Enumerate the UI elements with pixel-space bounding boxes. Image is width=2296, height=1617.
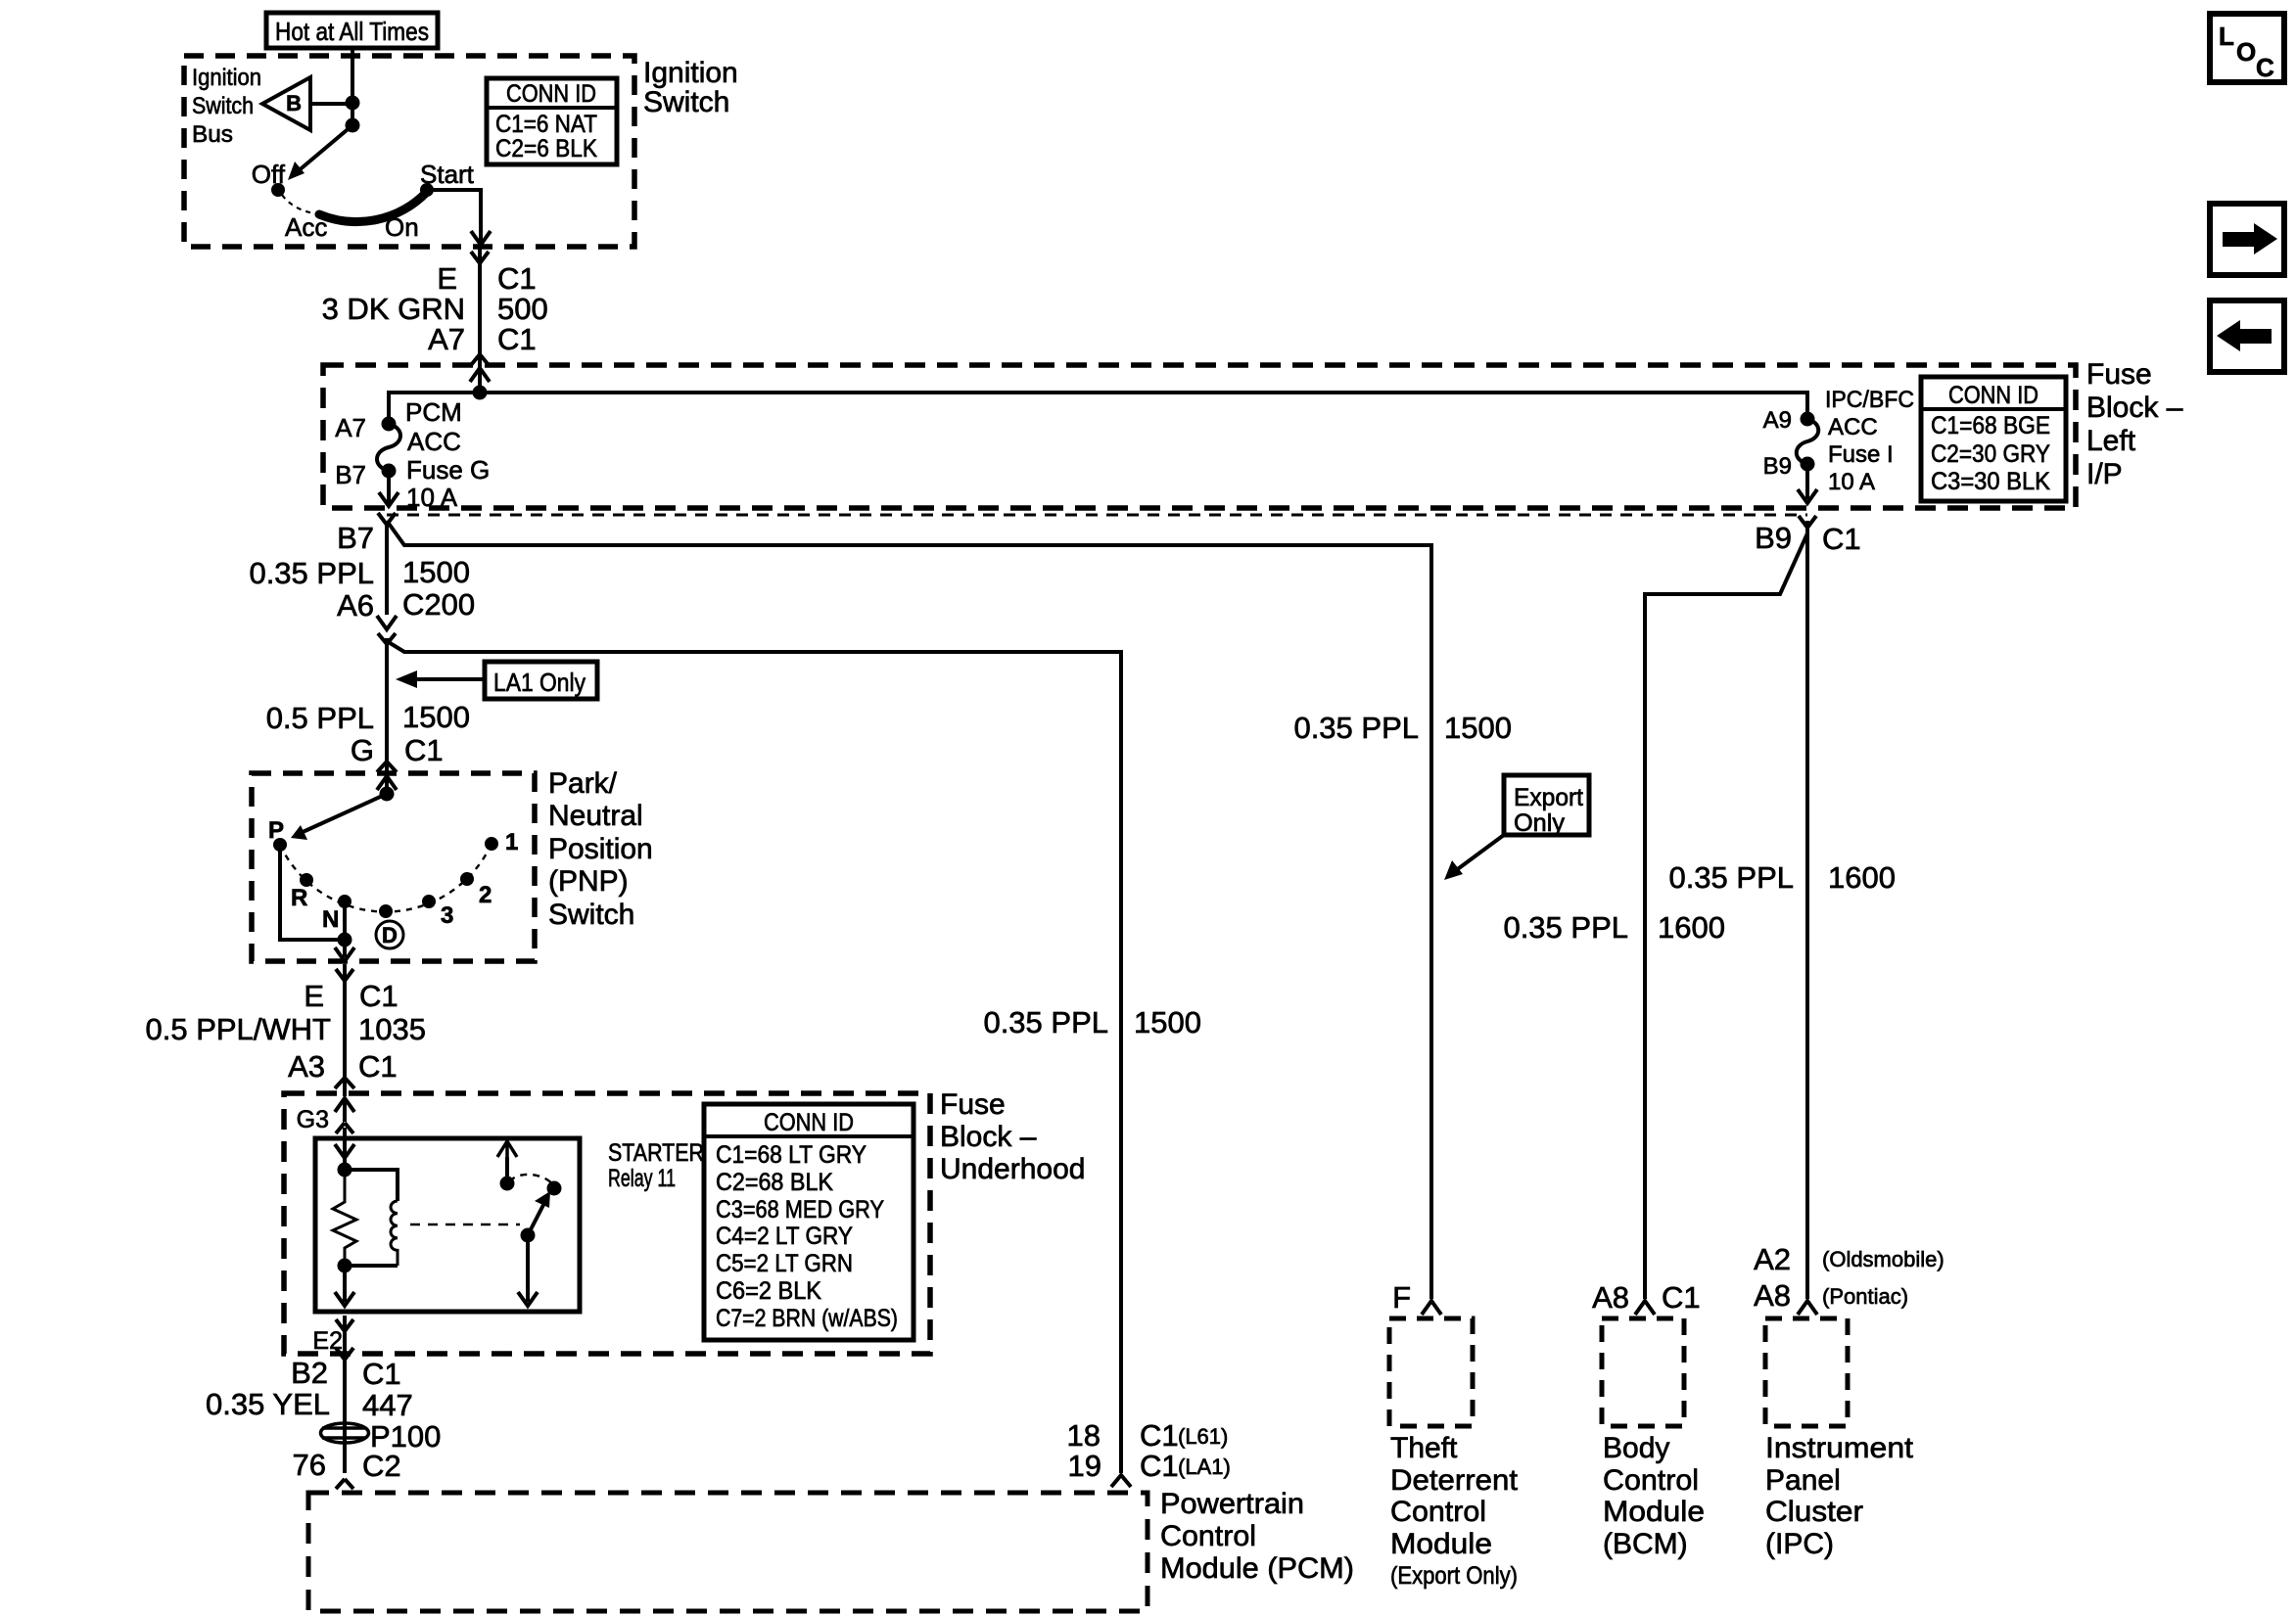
svg-text:D: D [382,923,398,947]
svg-text:C1=6 NAT: C1=6 NAT [495,111,597,138]
label Fuse Block - Underhood [940,1088,1085,1185]
PCM dashed box [308,1493,1148,1611]
connector A6 / C200 [337,587,475,644]
wire label 0.35 PPL 1500 (theft line) [1293,711,1512,745]
svg-text:Panel: Panel [1765,1464,1841,1497]
svg-text:1500: 1500 [1444,711,1512,745]
svg-text:Control: Control [1603,1464,1699,1497]
svg-text:0.35 PPL: 0.35 PPL [249,556,374,590]
svg-text:Block –: Block – [2086,392,2183,424]
wire label 0.35 PPL 1500 [249,555,470,590]
svg-text:B7: B7 [335,460,366,489]
relay top branch wire [345,1170,398,1201]
connector A2/A8 (IPC) [1754,1242,1945,1315]
label PCM ACC [405,397,462,456]
svg-text:(BCM): (BCM) [1603,1528,1688,1560]
svg-text:A8: A8 [1592,1280,1629,1315]
svg-text:C: C [2256,53,2274,82]
svg-text:CONN ID: CONN ID [764,1109,854,1136]
junction node relay top [340,1165,351,1176]
connector F (theft deterrent) [1392,1280,1441,1315]
terminal G3 arrow into underhood block [297,1098,354,1133]
svg-text:B9: B9 [1763,453,1792,480]
relay moving contact node [549,1183,560,1194]
node 1 [487,829,518,855]
arrow wire entering fuse block [470,368,490,393]
svg-text:C1: C1 [404,733,444,767]
arrow wire entering PNP switch [377,776,397,794]
svg-text:Left: Left [2086,425,2136,457]
PNP switch dashed box [252,773,535,961]
connector A8 / C1 (BCM) [1592,1280,1701,1315]
svg-text:A6: A6 [337,588,374,623]
svg-text:Hot at All Times: Hot at All Times [275,17,429,46]
grommet P100 [321,1419,442,1454]
left arrow icon box [2210,300,2284,372]
label Instrument Panel Cluster (IPC) [1765,1432,1914,1560]
svg-text:C1: C1 [1822,522,1861,556]
wire N to output junction [343,901,347,940]
svg-text:Start: Start [420,160,475,189]
wire G3 to starter relay [343,1128,347,1170]
svg-text:C3=68 MED GRY: C3=68 MED GRY [716,1196,884,1224]
svg-text:N: N [322,906,339,933]
svg-text:0.5 PPL/WHT: 0.5 PPL/WHT [146,1012,332,1046]
svg-text:1600: 1600 [1828,860,1896,895]
dashed contact travel arc [509,1175,554,1185]
svg-text:Switch: Switch [548,899,634,931]
wire from Hot at All Times into ignition switch [351,48,354,125]
wire B7 down to C200 [385,525,389,615]
svg-text:Underhood: Underhood [940,1153,1085,1185]
wire label 0.35 PPL 1600 (IPC line) [1668,860,1896,895]
connector G / C1 (PNP switch) [351,733,444,772]
svg-text:Park/: Park/ [548,767,618,800]
svg-text:L: L [2219,22,2234,51]
connector A3 / C1 (underhood fuse block) [288,1049,398,1088]
node P [268,817,285,850]
label Ignition Switch Bus [192,65,261,148]
terminal label A7 / C1 (fuse block) [428,322,537,365]
svg-text:STARTER: STARTER [608,1139,704,1167]
node 3 [424,897,453,929]
terminal B7 of fuse G [335,460,394,489]
svg-text:Bus: Bus [192,121,233,148]
svg-text:A7: A7 [428,322,465,356]
svg-text:Only: Only [1514,809,1566,837]
Fuse Block Underhood dashed box [284,1093,930,1354]
svg-text:10 A: 10 A [1828,469,1875,495]
svg-text:Fuse I: Fuse I [1828,441,1894,468]
relay fixed contact wire with up arrow [497,1141,517,1189]
svg-text:19: 19 [1068,1449,1101,1483]
svg-text:On: On [385,212,419,242]
connector ID box (ignition switch) [487,78,617,164]
Theft Deterrent Control Module dashed box [1389,1318,1473,1426]
svg-text:CONN ID: CONN ID [1948,382,2038,409]
svg-text:C1: C1 [497,261,537,296]
svg-text:IPC/BFC: IPC/BFC [1825,387,1914,413]
wire label 0.35 YEL 447 [206,1387,413,1422]
wire label 0.35 PPL 1500 (PCM line) [983,1005,1201,1039]
svg-text:(L61): (L61) [1178,1424,1228,1449]
Export Only flag box [1444,775,1589,880]
connector B9 / C1 below fuse block [1755,516,1861,556]
svg-text:1500: 1500 [402,555,470,589]
svg-text:(Pontiac): (Pontiac) [1822,1284,1908,1309]
label Powertrain Control Module (PCM) [1160,1488,1354,1585]
svg-text:Position: Position [548,833,653,865]
wire C200 to PNP switch [385,638,389,773]
svg-text:B2: B2 [291,1356,328,1390]
svg-text:F: F [1392,1280,1411,1315]
wire ignition switch to fuse block [478,247,482,392]
svg-text:0.5 PPL: 0.5 PPL [266,701,374,735]
wire relay to underhood block exit [343,1316,347,1473]
svg-text:Off: Off [252,160,286,189]
label Ignition Switch [643,57,738,118]
buffer triangle B (ignition switch bus) [262,77,352,130]
fuse block internal bus wire [389,393,1807,424]
svg-text:Fuse: Fuse [2086,358,2152,391]
svg-text:C1: C1 [358,1049,398,1084]
label STARTER Relay 11 [608,1139,704,1192]
svg-text:Fuse G: Fuse G [406,455,490,485]
label Fuse G 10 A [406,455,490,512]
svg-text:C200: C200 [402,587,475,622]
svg-text:Ignition: Ignition [192,65,261,91]
Fuse Block Left I/P dashed box [323,365,2076,508]
svg-text:A7: A7 [335,413,366,442]
svg-text:Deterrent: Deterrent [1390,1464,1519,1497]
wire label 0.5 PPL 1500 [266,700,470,735]
svg-text:0.35 PPL: 0.35 PPL [1668,860,1794,895]
svg-text:E: E [437,261,457,296]
svg-text:C6=2 BLK: C6=2 BLK [716,1277,821,1305]
svg-text:Relay 11: Relay 11 [608,1165,676,1192]
svg-text:C1: C1 [359,979,398,1013]
Body Control Module dashed box [1602,1318,1684,1426]
connector 18/19 C1 (PCM) [1067,1418,1231,1487]
svg-text:C2: C2 [362,1449,401,1483]
right arrow icon box [2210,204,2284,275]
relay switch arm with arrow [523,1191,551,1241]
coil (relay) [391,1201,398,1266]
arrow into relay coil branch [335,1144,354,1158]
svg-text:P: P [268,817,284,844]
wire A6 branch to PCM line [387,641,1121,1473]
svg-text:C1: C1 [1662,1280,1701,1315]
svg-text:PCM: PCM [405,397,462,427]
terminal A9 of fuse I [1763,407,1813,434]
svg-text:76: 76 [293,1448,326,1482]
svg-text:ACC: ACC [1828,414,1878,440]
svg-text:C1: C1 [362,1357,401,1391]
svg-text:C1: C1 [1140,1418,1179,1453]
node switch pivot [348,120,358,131]
svg-text:Powertrain: Powertrain [1160,1488,1304,1520]
terminal A7 of fuse G [335,413,394,442]
connector B2 / C1 [291,1356,401,1391]
svg-text:O: O [2236,37,2256,67]
svg-text:B9: B9 [1755,521,1792,555]
node Off [252,160,286,195]
svg-text:Theft: Theft [1390,1432,1458,1464]
svg-text:500: 500 [497,292,548,326]
svg-text:Instrument: Instrument [1765,1432,1914,1464]
Hot at All Times box [266,13,438,48]
svg-text:Control: Control [1160,1520,1256,1552]
svg-text:Cluster: Cluster [1765,1496,1863,1528]
svg-text:(Export Only): (Export Only) [1390,1562,1518,1590]
starter relay box [315,1138,580,1312]
svg-text:0.35 PPL: 0.35 PPL [983,1005,1108,1039]
svg-text:447: 447 [362,1388,413,1422]
svg-text:Module: Module [1603,1496,1705,1528]
svg-text:R: R [291,885,307,911]
junction node relay bottom [340,1261,351,1271]
svg-text:CONN ID: CONN ID [506,80,596,108]
svg-text:Fuse: Fuse [940,1088,1006,1121]
svg-text:LA1 Only: LA1 Only [493,668,586,697]
label Body Control Module (BCM) [1603,1432,1705,1560]
node N [322,897,350,933]
svg-text:C1=68 LT GRY: C1=68 LT GRY [716,1141,867,1169]
node D (between N and 3) [381,906,391,916]
connector E / C1 below PNP [304,969,398,1013]
svg-text:3: 3 [441,902,453,929]
arrow wire leaving PNP switch [335,940,354,961]
svg-text:1500: 1500 [1134,1005,1201,1039]
svg-text:A3: A3 [288,1049,325,1084]
wire fuse I to B9 exit arrow [1798,464,1817,503]
PNP rotor arrow to P [291,794,387,840]
svg-text:ACC: ACC [407,427,461,456]
LOC icon box [2210,14,2284,82]
wire label 0.35 PPL 1600 (BCM line) [1503,910,1725,945]
svg-text:1500: 1500 [402,700,470,734]
svg-text:Module (PCM): Module (PCM) [1160,1552,1354,1585]
wire PNP to underhood fuse block [343,964,347,1096]
svg-text:G: G [351,733,374,767]
svg-text:C2=6 BLK: C2=6 BLK [495,135,597,162]
svg-text:B7: B7 [337,521,374,555]
label Fuse Block - Left I/P [2086,358,2183,490]
label Theft Deterrent Control Module (Export Only) [1390,1432,1519,1590]
svg-text:0.35 PPL: 0.35 PPL [1293,711,1419,745]
junction node bus [475,388,486,398]
connector E / C1 (ignition switch C1) [437,252,536,296]
svg-text:0.35 YEL: 0.35 YEL [206,1387,330,1421]
svg-text:3 DK GRN: 3 DK GRN [322,292,465,326]
fuse G element [377,424,400,471]
svg-text:Acc: Acc [285,212,327,242]
node Start [420,160,475,195]
wire fuse G to B7 exit arrow [379,471,398,506]
svg-text:(IPC): (IPC) [1765,1528,1834,1560]
svg-text:Body: Body [1603,1432,1669,1464]
svg-text:0.35 PPL: 0.35 PPL [1503,910,1628,945]
circled D label [376,921,403,948]
svg-text:Switch: Switch [192,93,254,119]
connector ID box (fuse block underhood) [704,1104,914,1340]
wire label 3 DK GRN 500 [322,292,548,326]
svg-text:A8: A8 [1754,1278,1791,1313]
node PNP pivot [382,789,393,800]
switch rotor arrow to Off [288,125,352,180]
fuse I element [1797,419,1819,464]
svg-text:2: 2 [479,882,492,908]
svg-text:Switch: Switch [643,86,729,118]
label Fuse I 10 A [1828,441,1894,495]
connector 76 / C2 (PCM) [293,1448,401,1489]
terminal B9 of fuse I [1763,453,1813,480]
svg-text:(LA1): (LA1) [1178,1455,1231,1479]
relay bottom branch wire [345,1264,398,1268]
svg-text:10 A: 10 A [406,483,458,512]
svg-text:1: 1 [505,829,518,855]
svg-text:1035: 1035 [358,1012,426,1046]
svg-text:Neutral: Neutral [548,800,643,832]
svg-text:Export: Export [1514,784,1583,811]
node 2 [462,874,492,908]
svg-text:C1=68 BGE: C1=68 BGE [1931,412,2050,439]
resistor (relay) [333,1170,356,1266]
svg-text:(PNP): (PNP) [548,865,629,898]
wire Start to connector C1 [427,190,491,245]
svg-text:18: 18 [1067,1418,1101,1453]
wire switch arm to relay bottom [518,1235,538,1306]
wire B9 down to IPC [1805,521,1809,1299]
svg-text:C1: C1 [1140,1449,1179,1483]
svg-text:Block –: Block – [940,1121,1037,1153]
svg-text:C2=68 BLK: C2=68 BLK [716,1169,833,1196]
svg-text:C2=30 GRY: C2=30 GRY [1931,440,2050,468]
label Park/Neutral Position (PNP) Switch [548,767,653,931]
connector below underhood block [336,1348,353,1360]
connector B7 / C1 below fuse block [337,513,396,555]
LA1 Only flag box [396,662,597,699]
connector E2 below relay [312,1319,353,1355]
svg-text:1600: 1600 [1658,910,1725,945]
svg-text:C5=2 LT GRN: C5=2 LT GRN [716,1250,853,1277]
arrow wire relay coil to E2 [335,1266,354,1306]
Instrument Panel Cluster dashed box [1765,1318,1848,1426]
wire B9 branch to BCM line [1645,533,1807,1299]
svg-text:B: B [286,91,302,115]
svg-text:A2: A2 [1754,1242,1791,1276]
svg-text:C3=30 BLK: C3=30 BLK [1931,468,2050,495]
thick wiper arc Acc-On-Start [319,192,427,222]
wire B7 branch to theft deterrent line [387,521,1431,1299]
node R [291,875,311,911]
wire label 0.5 PPL/WHT 1035 [146,1012,426,1046]
svg-text:I/P: I/P [2086,458,2123,490]
svg-text:Ignition: Ignition [643,57,738,89]
svg-text:C1: C1 [497,322,537,356]
dashed travel Off to Acc [282,195,314,213]
svg-text:G3: G3 [297,1106,329,1133]
svg-text:A9: A9 [1763,407,1792,434]
junction node PNP output [340,935,351,946]
dashed position arc P-R-N-D-3-2-1 [280,844,492,912]
svg-text:Module: Module [1390,1528,1492,1560]
junction node on bus wire [348,98,358,109]
svg-text:(Oldsmobile): (Oldsmobile) [1822,1247,1945,1271]
svg-text:E: E [304,979,324,1013]
connector ID box (fuse block left I/P) [1921,377,2066,501]
label IPC/BFC ACC [1825,387,1914,440]
dashed actuation line coil to switch [410,1224,520,1225]
wire P to output junction [280,845,345,940]
svg-text:C7=2 BRN (w/ABS): C7=2 BRN (w/ABS) [716,1305,898,1332]
svg-text:Control: Control [1390,1496,1486,1528]
thin dashed in-harness line below fuse block [387,514,1807,517]
ignition switch dashed box [184,56,634,247]
svg-text:C4=2 LT GRY: C4=2 LT GRY [716,1223,853,1250]
